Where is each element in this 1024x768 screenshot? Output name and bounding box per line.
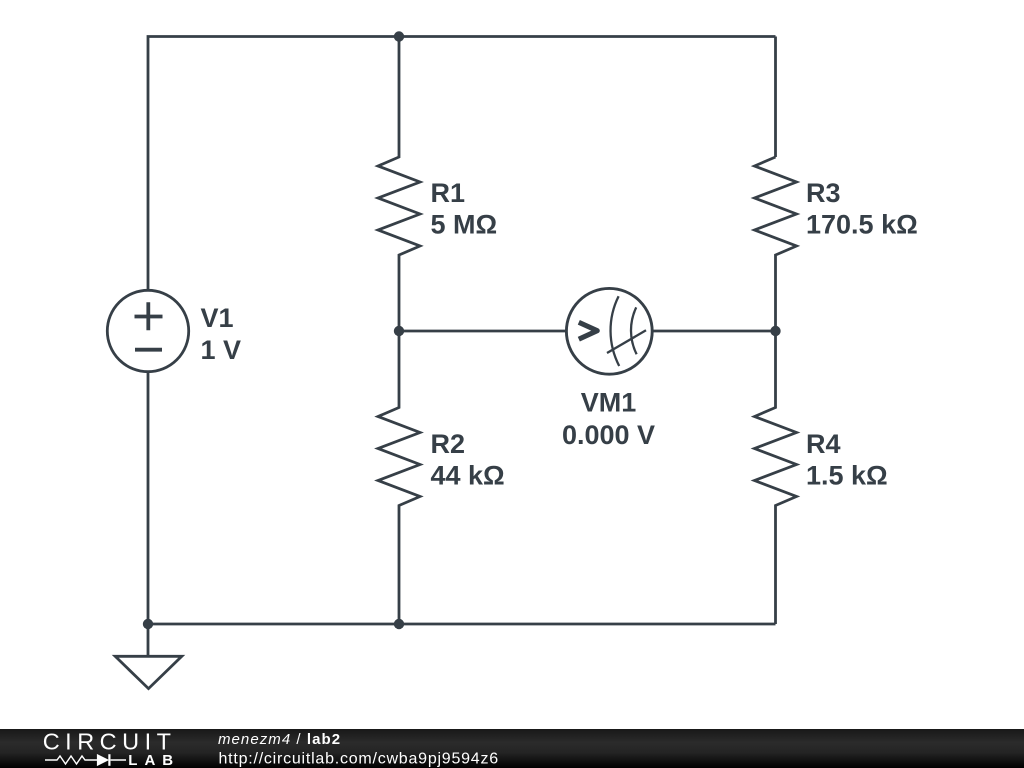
node A top xyxy=(394,31,404,41)
wire bottom rail xyxy=(148,623,776,626)
node E bottom mid xyxy=(394,619,404,629)
svg-text:R4: R4 xyxy=(806,429,841,459)
svg-text:1.5 kΩ: 1.5 kΩ xyxy=(806,461,888,491)
svg-text:R2: R2 xyxy=(431,429,466,459)
resistor R2 xyxy=(378,331,420,624)
wire top rail with left and right verticals xyxy=(148,37,776,625)
node C mid right xyxy=(770,326,780,336)
svg-text:menezm4 / lab2: menezm4 / lab2 xyxy=(218,731,341,748)
node D bottom left xyxy=(143,619,153,629)
svg-text:0.000 V: 0.000 V xyxy=(562,420,655,450)
wire middle horizontal (bridge output) xyxy=(399,330,776,333)
voltmeter VM1 xyxy=(566,288,652,374)
logo resistor-diode squiggle xyxy=(45,756,126,764)
resistor R1 xyxy=(378,37,420,332)
node B mid left xyxy=(394,326,404,336)
ground xyxy=(115,624,182,689)
svg-text:V1: V1 xyxy=(201,303,234,333)
svg-text:44 kΩ: 44 kΩ xyxy=(431,461,505,491)
svg-text:CIRCUIT: CIRCUIT xyxy=(43,728,177,754)
svg-text:5 MΩ: 5 MΩ xyxy=(431,210,498,240)
footer bar xyxy=(0,729,1024,768)
svg-text:R3: R3 xyxy=(806,178,841,208)
svg-text:170.5 kΩ: 170.5 kΩ xyxy=(806,210,918,240)
resistor R3 xyxy=(755,157,797,331)
resistor R4 xyxy=(755,331,797,624)
svg-text:1 V: 1 V xyxy=(201,335,242,365)
svg-text:LAB: LAB xyxy=(128,752,180,768)
svg-text:http://circuitlab.com/cwba9pj9: http://circuitlab.com/cwba9pj9594z6 xyxy=(219,750,499,767)
voltage source V1 xyxy=(107,290,188,371)
svg-text:R1: R1 xyxy=(431,178,466,208)
svg-text:VM1: VM1 xyxy=(581,388,637,418)
